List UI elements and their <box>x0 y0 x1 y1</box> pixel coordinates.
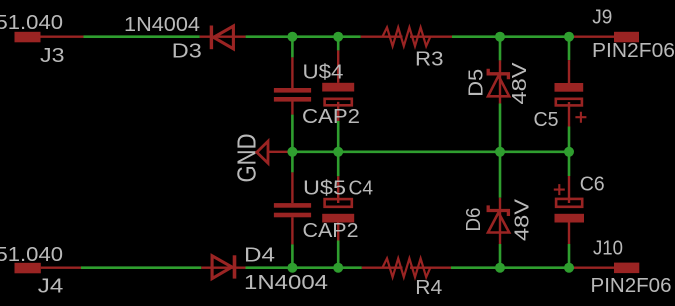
wire: GND rail <box>290 151 569 154</box>
svg-text:48V: 48V <box>509 62 531 105</box>
wire: top rail D3 to R3 <box>246 35 361 38</box>
capacitor C5 (pins) <box>568 60 570 83</box>
wire: col D bottom <box>499 154 502 198</box>
connector J9 pad <box>614 32 639 43</box>
wire: col B top <box>337 39 340 50</box>
junction GND rail col C <box>564 147 574 157</box>
svg-text:D5: D5 <box>466 69 488 97</box>
svg-text:GND: GND <box>231 134 261 183</box>
capacitor col B bottom (pins) <box>337 176 339 203</box>
svg-text:CAP2: CAP2 <box>303 220 359 242</box>
junction bottom rail col D <box>495 263 505 273</box>
wire: col A bottom <box>291 154 294 172</box>
capacitor col B bottom plates (polarized) <box>325 199 352 207</box>
wire: col C top <box>568 39 571 60</box>
capacitor C6 (pins) <box>568 176 570 203</box>
svg-text:PIN2F06: PIN2F06 <box>592 40 675 62</box>
svg-text:J4: J4 <box>38 275 64 297</box>
wire: bottom rail D4 to R4 <box>246 266 362 269</box>
junction top rail col B <box>333 32 343 42</box>
plus sign C6 <box>554 184 565 195</box>
svg-text:51.040: 51.040 <box>0 12 63 34</box>
svg-text:C4: C4 <box>349 177 374 199</box>
junction GND rail col B <box>333 147 343 157</box>
wire: col A top to GND rail <box>291 115 294 149</box>
connector J3 pad <box>15 32 41 43</box>
capacitor U$5 plates <box>274 203 311 208</box>
svg-text:U$4: U$4 <box>303 61 344 83</box>
wire: bottom rail J4 to D4 <box>81 266 201 269</box>
wire: top rail R3 to J9 <box>452 35 574 38</box>
J4 pin <box>41 267 81 269</box>
wire: top rail J3 to D3 <box>84 35 200 38</box>
capacitor C6 plates (polarized) <box>556 199 582 207</box>
junction GND rail col D <box>495 147 505 157</box>
wire: col C bottom <box>568 154 571 176</box>
svg-text:J3: J3 <box>40 45 65 67</box>
J3 pin <box>41 36 84 38</box>
svg-text:1N4004: 1N4004 <box>124 14 200 36</box>
junction GND rail col A <box>287 147 297 157</box>
svg-text:C6: C6 <box>580 174 605 196</box>
junction bottom rail col B <box>333 263 343 273</box>
svg-text:51.040: 51.040 <box>0 244 63 266</box>
wire: col B bottom to bottom rail <box>337 241 340 266</box>
resistor R4 <box>362 258 451 277</box>
svg-text:R4: R4 <box>415 277 442 299</box>
wire: bottom rail R4 to J10 <box>451 266 574 269</box>
wire: col A bottom to bottom rail <box>291 244 294 265</box>
connector J10 pad <box>614 263 639 274</box>
zener diode D5 <box>488 60 509 103</box>
svg-text:48V: 48V <box>512 198 534 241</box>
capacitor col B top (pins) <box>337 50 339 82</box>
wire: col B top to GND rail <box>337 121 340 149</box>
zener diode D6 <box>488 198 509 244</box>
svg-text:J10: J10 <box>593 237 623 259</box>
svg-text:U$5: U$5 <box>303 177 346 199</box>
J10 pin <box>574 267 614 269</box>
wire: col D top to GND rail <box>499 104 502 150</box>
connector J4 pad <box>15 263 41 274</box>
wire: col A top <box>291 39 294 57</box>
GND supply symbol <box>257 141 291 163</box>
wire: col C bottom to bottom rail <box>568 244 571 265</box>
wire: col B bottom <box>337 154 340 176</box>
diode D3 (cathode left) <box>200 26 246 50</box>
capacitor col B top plates (polarized) <box>322 83 354 92</box>
capacitor U$5 (pins) <box>291 172 293 203</box>
svg-text:PIN2F06: PIN2F06 <box>591 275 672 297</box>
svg-text:D6: D6 <box>463 208 485 232</box>
svg-text:C5: C5 <box>534 109 559 131</box>
wire: col C top to GND rail <box>568 127 571 150</box>
svg-text:R3: R3 <box>415 48 444 70</box>
junction top rail col C <box>564 32 574 42</box>
junction bottom rail col A <box>287 263 297 273</box>
capacitor U$4 plates <box>274 88 311 93</box>
resistor R3 <box>361 27 452 46</box>
svg-text:1N4004: 1N4004 <box>244 272 328 294</box>
J9 pin <box>574 36 614 38</box>
junction bottom rail col C <box>564 263 574 273</box>
plus sign C5 <box>575 112 586 123</box>
junction top rail col D <box>495 32 505 42</box>
svg-text:D3: D3 <box>172 40 202 62</box>
diode D4 (cathode right) <box>201 255 245 278</box>
capacitor C5 plates (polarized) <box>555 83 584 92</box>
wire: col D top <box>499 39 502 60</box>
svg-text:D4: D4 <box>244 245 275 267</box>
capacitor U$4 (pins) <box>291 57 293 88</box>
wire: col D bottom to bottom rail <box>499 244 502 265</box>
junction top rail col A <box>287 32 297 42</box>
svg-text:J9: J9 <box>592 7 612 29</box>
svg-text:CAP2: CAP2 <box>302 106 360 128</box>
